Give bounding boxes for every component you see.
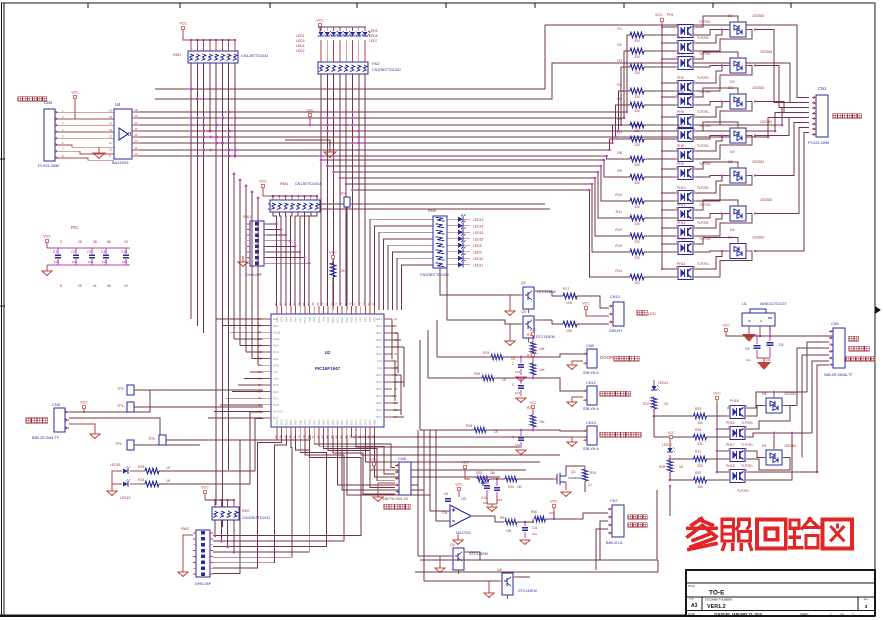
svg-text:RB2: RB2 [335, 419, 339, 425]
svg-text:DTC143EM: DTC143EM [469, 552, 488, 556]
svg-text:VCC: VCC [71, 91, 79, 95]
svg-text:10K: 10K [539, 420, 546, 424]
frame arrow right mid [875, 306, 881, 314]
wire VR1 to Q1 [489, 478, 553, 480]
svg-text:RD2: RD2 [376, 380, 382, 384]
wires RM7 top [205, 499, 235, 507]
svg-text:Q3: Q3 [521, 310, 526, 314]
svg-text:RD5: RD5 [376, 401, 382, 405]
svg-text:R17: R17 [563, 287, 569, 291]
ground SW2 [178, 535, 193, 577]
wires SW1 right [267, 223, 310, 265]
frame tick left A [0, 158, 5, 160]
resistor R36 100 [531, 510, 554, 522]
title block date row [688, 612, 854, 617]
svg-text:VCC: VCC [329, 251, 337, 255]
wires RM2 outputs [320, 40, 365, 306]
label 電源監視電流入力 [600, 432, 641, 437]
labels LED1-4 [296, 34, 305, 53]
svg-text:LED18: LED18 [110, 463, 120, 467]
svg-text:LED1: LED1 [296, 34, 305, 38]
label 反射出力 [628, 515, 647, 519]
svg-text:R33: R33 [138, 478, 144, 482]
svg-text:VCC: VCC [713, 392, 721, 396]
svg-text:DATE: DATE [688, 612, 695, 616]
ground CN12 [567, 397, 583, 407]
svg-text:LED16: LED16 [473, 237, 483, 241]
svg-text:RF4: RF4 [368, 317, 372, 323]
svg-text:CN12: CN12 [586, 381, 596, 385]
wires CN5 [69, 390, 160, 440]
svg-text:330: 330 [634, 281, 640, 285]
svg-text:104: 104 [88, 260, 93, 264]
svg-text:U3: U3 [461, 497, 466, 501]
wire bus y99 [155, 63, 809, 103]
wires RM6 to PIC [370, 219, 433, 310]
svg-text:8: 8 [60, 284, 62, 288]
transistor Q5 DTC143EM [497, 568, 537, 599]
ground C9C10 [487, 495, 497, 512]
svg-text:10K: 10K [339, 269, 346, 273]
label PI-021-08M CN1 [808, 140, 829, 145]
svg-text:1K: 1K [511, 357, 516, 361]
wires U2 top fan [277, 305, 375, 307]
svg-text:RC2: RC2 [349, 419, 353, 425]
svg-text:330: 330 [634, 129, 640, 133]
svg-text:RH7: RH7 [303, 317, 307, 323]
svg-text:C1: C1 [53, 250, 57, 254]
svg-text:DHN-08F: DHN-08F [246, 273, 263, 277]
svg-text:1SS383: 1SS383 [760, 198, 772, 202]
svg-text:RF7: RF7 [298, 317, 302, 323]
svg-text:9: 9 [60, 240, 62, 244]
svg-text:LED6: LED6 [369, 34, 378, 38]
svg-text:RB0: RB0 [345, 419, 349, 425]
svg-text:PH10: PH10 [677, 186, 686, 190]
svg-text:R3: R3 [617, 59, 622, 63]
svg-text:CN13: CN13 [586, 421, 596, 425]
svg-text:RB1: RB1 [340, 419, 344, 425]
svg-text:RA1: RA1 [273, 357, 279, 361]
wire Q3 to R18 [538, 320, 609, 324]
svg-text:R2: R2 [617, 43, 622, 47]
svg-text:104: 104 [532, 532, 537, 536]
connector CN7 label [610, 499, 618, 503]
svg-text:CN10: CN10 [610, 295, 620, 299]
svg-text:R31: R31 [500, 516, 506, 520]
switch SW2 [193, 530, 213, 577]
svg-text:B3B-ZR-SM4-TF: B3B-ZR-SM4-TF [32, 436, 60, 440]
power VCC RM4 [259, 180, 272, 197]
regulator U1 [742, 309, 775, 326]
svg-text:C2: C2 [71, 250, 75, 254]
wire drop x775 [774, 113, 809, 133]
svg-text:RA3: RA3 [273, 344, 279, 348]
connector CN1 [812, 95, 828, 137]
label 外部LED [637, 310, 656, 316]
ic U2 right pins [376, 317, 397, 419]
svg-text:VCC: VCC [667, 431, 675, 435]
svg-text:PH8: PH8 [677, 144, 684, 148]
ground CN5 [69, 424, 100, 439]
svg-text:LED12: LED12 [658, 381, 668, 385]
wire bus group middle [140, 112, 782, 156]
led array LED13-LED11 [447, 214, 483, 267]
svg-text:RF5: RF5 [289, 317, 293, 323]
title block size A3 [689, 599, 698, 610]
capacitors C1-C13 bypass [47, 248, 130, 265]
svg-text:S3B-XH-A: S3B-XH-A [583, 371, 599, 375]
svg-text:RD0: RD0 [376, 352, 382, 356]
wires U2 bottom to CN6 nested [314, 435, 395, 494]
svg-text:PH11: PH11 [677, 203, 685, 207]
svg-text:1SS383: 1SS383 [752, 236, 764, 240]
power VCC U4 [306, 109, 314, 127]
svg-text:PIC: PIC [71, 225, 79, 230]
resistor R18 10K [563, 321, 577, 333]
svg-text:B4B-XH-A: B4B-XH-A [606, 541, 623, 545]
connector CN10 label [610, 295, 620, 299]
power VCC Q3 [582, 302, 609, 317]
svg-text:S4B-PH-SM4-TB: S4B-PH-SM4-TB [382, 497, 409, 501]
svg-text:DOCUMENT NUMBER: DOCUMENT NUMBER [705, 598, 732, 602]
wires RM7 down [214, 520, 235, 553]
svg-text:TLP291: TLP291 [741, 443, 753, 447]
connector CN9 [829, 328, 845, 368]
svg-text:330: 330 [634, 55, 640, 59]
optocouplers PH1-PH14 TLP291 [675, 20, 711, 280]
title block logo [688, 585, 725, 597]
svg-text:Vdd: Vdd [273, 377, 279, 381]
label 手正出力 [849, 346, 869, 351]
svg-text:104: 104 [515, 443, 520, 447]
regulator U1 label [742, 302, 788, 306]
svg-text:PH9: PH9 [677, 162, 684, 166]
wires U2 left fan [208, 173, 263, 418]
svg-text:RA7: RA7 [303, 419, 307, 425]
wires CN9 down bundle [797, 342, 829, 472]
led LED12 [651, 380, 668, 390]
svg-text:Vss: Vss [377, 366, 383, 370]
wire bus y209 [268, 208, 550, 210]
wires diodes right [773, 391, 797, 447]
title block doc number [705, 598, 732, 611]
svg-text:R36: R36 [531, 510, 537, 514]
svg-text:TITLE: TITLE [688, 585, 695, 588]
svg-text:TLP291: TLP291 [699, 20, 711, 24]
capacitor C6 10u [757, 335, 783, 362]
svg-text:TP2: TP2 [117, 387, 124, 391]
test point TP2 [117, 385, 263, 395]
svg-text:RB3: RB3 [331, 419, 335, 425]
svg-text:3: 3 [865, 604, 868, 609]
svg-text:RF3: RF3 [280, 317, 284, 323]
svg-text:LED17: LED17 [662, 443, 672, 447]
svg-text:D2: D2 [730, 80, 735, 84]
svg-text:Q4: Q4 [450, 543, 455, 547]
svg-text:41: 41 [93, 284, 97, 288]
title block box [686, 570, 875, 616]
svg-text:PIC16F1947: PIC16F1947 [315, 366, 341, 371]
power VCC CN6 [370, 458, 395, 471]
svg-text:SHEET: SHEET [800, 612, 809, 616]
svg-text:LED9: LED9 [473, 250, 482, 254]
svg-text:VCC: VCC [370, 458, 378, 462]
wires input rows left verticals [420, 320, 437, 430]
label B4B-XH-A [606, 541, 623, 545]
resistors R23 R34 R27 R32 [694, 407, 707, 489]
svg-text:RD1: RD1 [376, 373, 382, 377]
svg-text:CN7: CN7 [610, 499, 618, 503]
potentiometer VR1 1M [476, 471, 495, 486]
svg-text:330: 330 [634, 181, 640, 185]
svg-text:TP1: TP1 [117, 404, 124, 408]
svg-text:330: 330 [634, 95, 640, 99]
svg-text:VCC: VCC [80, 401, 88, 405]
svg-text:PH17: PH17 [726, 443, 735, 447]
connector CN10 [609, 302, 624, 326]
svg-text:330: 330 [634, 205, 640, 209]
connector CN6 [395, 462, 411, 495]
power VCC RM7 [201, 486, 209, 501]
svg-text:RM4: RM4 [280, 182, 288, 186]
svg-text:Vss: Vss [312, 420, 316, 425]
wire led17 column down [669, 485, 671, 516]
label 通信出力 [26, 418, 48, 423]
svg-text:RF2: RF2 [359, 317, 363, 323]
svg-text:RC0: RC0 [273, 403, 279, 407]
title block rev [864, 599, 869, 609]
svg-text:RA4: RA4 [273, 390, 279, 394]
svg-text:RM6: RM6 [428, 209, 436, 213]
svg-text:1K: 1K [502, 378, 507, 382]
svg-text:CN1F8KTTD103J: CN1F8KTTD103J [420, 273, 449, 277]
svg-text:RE7: RE7 [376, 345, 382, 349]
svg-text:R10: R10 [615, 193, 622, 197]
svg-text:U4: U4 [115, 102, 121, 107]
svg-text:TP3: TP3 [340, 192, 347, 196]
svg-text:TLP291: TLP291 [697, 262, 709, 266]
svg-text:1K: 1K [494, 430, 499, 434]
svg-text:104: 104 [72, 260, 77, 264]
test point TP3 [340, 192, 350, 310]
resistor network RM6 [428, 209, 447, 268]
wire to CN7 [546, 512, 608, 520]
svg-text:DOOR: DOOR [600, 355, 613, 360]
wires analog verticals [418, 430, 436, 581]
capacitor C5 10u [745, 335, 761, 362]
label ドアオープン [846, 357, 875, 361]
wires CN7 other pins [596, 521, 608, 570]
svg-text:RC3: RC3 [354, 419, 358, 425]
svg-text:RE0: RE0 [349, 317, 353, 323]
wires U2 bottom right turns [351, 435, 587, 477]
svg-text:DTC143EM: DTC143EM [518, 589, 537, 593]
svg-text:LED3: LED3 [296, 39, 305, 43]
transistor Q4 DTC143EM [449, 543, 488, 574]
capacitor C11 104 [522, 521, 538, 538]
svg-text:Vss: Vss [322, 316, 326, 321]
resistor network RM4 [270, 182, 321, 212]
svg-text:104: 104 [102, 260, 107, 264]
svg-text:330: 330 [634, 143, 640, 147]
svg-text:RC4: RC4 [359, 419, 363, 425]
svg-text:CN1J8TTD103J: CN1J8TTD103J [295, 182, 321, 186]
resistor R31 10K [500, 516, 517, 533]
frame tick top right [790, 3, 792, 8]
connector CN8 [583, 344, 599, 375]
label PIC [71, 225, 79, 230]
svg-text:IN: IN [748, 319, 751, 323]
svg-text:RD4: RD4 [376, 394, 382, 398]
svg-text:PH16: PH16 [726, 421, 735, 425]
svg-text:RF6: RF6 [294, 317, 298, 323]
svg-text:330: 330 [634, 109, 640, 113]
svg-text:RF5: RF5 [373, 317, 377, 323]
wire bus y89 [155, 25, 809, 98]
svg-text:SW1: SW1 [243, 215, 251, 219]
capacitor C9 103 [494, 478, 502, 502]
svg-text:RB5: RB5 [322, 419, 326, 425]
svg-text:D8: D8 [762, 392, 766, 396]
wire R17 to CN10 [577, 296, 609, 308]
svg-text:RB4: RB4 [326, 419, 330, 425]
svg-text:RD7: RD7 [376, 415, 382, 419]
led LED18 [110, 463, 131, 474]
test point TP4 [115, 440, 200, 450]
svg-text:58: 58 [107, 240, 111, 244]
frame zone ticks top [88, 3, 791, 8]
svg-text:PH5: PH5 [677, 90, 684, 94]
svg-text:330: 330 [634, 240, 640, 244]
wires RM1 outputs down [190, 63, 237, 527]
power VCC RM2 [316, 19, 324, 34]
svg-text:R34: R34 [695, 428, 701, 432]
label 情報中継入力 (CN2) [18, 97, 53, 105]
svg-text:103: 103 [497, 498, 502, 502]
svg-text:R11: R11 [616, 210, 622, 214]
svg-text:SSM3K09: SSM3K09 [568, 476, 582, 480]
svg-text:TLP291: TLP291 [697, 186, 709, 190]
connector CN2 [44, 109, 59, 161]
ground LED18 [107, 471, 118, 496]
svg-text:330: 330 [634, 163, 640, 167]
svg-text:RF2: RF2 [275, 317, 279, 323]
transistor Q2 DTC143EM [519, 281, 556, 313]
svg-text:1SS383: 1SS383 [752, 14, 764, 18]
wire U3 out [471, 516, 504, 522]
wire U1 out [726, 326, 833, 337]
svg-text:RD3: RD3 [376, 387, 382, 391]
svg-text:VCC: VCC [582, 302, 590, 306]
test point TP1 [117, 402, 263, 412]
label DOOR センサ入力 [600, 355, 639, 361]
resistor R33 1K [130, 412, 263, 487]
svg-text:VsB: VsB [312, 317, 316, 322]
svg-text:AVdd: AVdd [273, 330, 280, 334]
svg-text:SW2: SW2 [181, 527, 189, 531]
resistor R17 10K [563, 287, 577, 305]
svg-text:1M: 1M [517, 485, 522, 489]
title 参照回路図 big red text [688, 519, 852, 550]
resistor R16 10K [330, 263, 345, 277]
ground U4 [285, 140, 336, 157]
svg-text:C8: C8 [444, 492, 448, 496]
svg-text:TLP291: TLP291 [697, 221, 709, 225]
power VCC VR1 [461, 461, 470, 480]
wires U4 outputs [132, 108, 140, 156]
ground C11 [520, 540, 530, 545]
ground U1 tab [742, 326, 756, 342]
svg-text:26: 26 [78, 240, 82, 244]
svg-text:PH1: PH1 [667, 13, 674, 17]
label PI-021-08M [38, 163, 59, 168]
wire drop x782 [781, 108, 809, 127]
connector CN7 [608, 505, 624, 537]
svg-text:U2: U2 [325, 350, 331, 355]
svg-text:LED8: LED8 [473, 244, 482, 248]
ground CN8 [567, 361, 583, 370]
svg-text:RC1: RC1 [273, 396, 279, 400]
svg-text:LED13: LED13 [473, 218, 483, 222]
svg-text:TO-E: TO-E [709, 590, 725, 597]
svg-text:SIZE: SIZE [689, 599, 694, 601]
svg-text:38: 38 [93, 240, 97, 244]
svg-text:LED19: LED19 [120, 496, 130, 500]
svg-text:PH15: PH15 [730, 399, 739, 403]
svg-text:Q5: Q5 [497, 568, 502, 572]
svg-text:330: 330 [634, 256, 640, 260]
wires Q2 Q3 inputs [440, 268, 519, 324]
wire Q2 to R17 [538, 291, 563, 296]
svg-text:330: 330 [697, 485, 703, 489]
svg-text:1SS383: 1SS383 [760, 50, 772, 54]
connector CN13 [583, 421, 599, 451]
label 電源 [849, 336, 859, 341]
power VCC U1 [722, 324, 748, 337]
label CN1F8KTTD103J RM6 [420, 273, 449, 277]
svg-text:C4: C4 [101, 250, 105, 254]
label S4B-PH-SM4-TB [382, 497, 409, 501]
label CN1E4KTTD103J [242, 516, 270, 520]
resistor network RM2 [318, 62, 368, 74]
svg-text:104: 104 [515, 391, 520, 395]
wire Q4 [418, 552, 480, 560]
ic U4 BA12003 [114, 109, 132, 159]
wires feeder verticals to R1-R14 [588, 35, 630, 277]
svg-text:DHN-08F: DHN-08F [195, 582, 212, 586]
resistor network RM7 [212, 507, 250, 520]
svg-text:R22: R22 [643, 402, 649, 406]
svg-text:Vdd: Vdd [308, 317, 312, 322]
svg-text:RF4: RF4 [284, 317, 288, 323]
svg-text:19: 19 [124, 240, 128, 244]
frame tick left B [0, 305, 5, 307]
svg-text:330: 330 [634, 39, 640, 43]
svg-text:100: 100 [549, 511, 554, 515]
svg-text:VCC: VCC [722, 324, 730, 328]
svg-text:RA6: RA6 [308, 419, 312, 425]
svg-text:Q2: Q2 [521, 281, 526, 285]
labels pin numbers bottom [60, 284, 128, 288]
op-amp U3 NJU7031 [450, 497, 471, 535]
capacitor C8 104 [442, 492, 451, 515]
power VCC U3 [455, 483, 463, 498]
connector CN5 label [52, 402, 61, 407]
svg-text:R30: R30 [508, 485, 514, 489]
svg-text:DTC143EM: DTC143EM [536, 335, 555, 339]
wire bus group rm2 [321, 160, 604, 190]
